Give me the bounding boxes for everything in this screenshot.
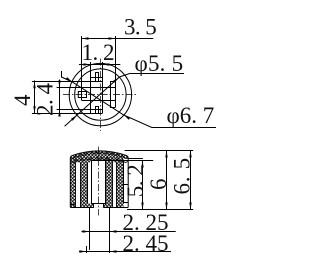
svg-text:4: 4 — [10, 94, 35, 106]
cross top cap right — [98, 72, 100, 81]
leader line phi6.7 diagonal — [62, 71, 217, 128]
dim 2.25 right ext line — [109, 208, 111, 254]
dim 2.25 left ext line — [89, 208, 91, 251]
svg-text:3. 5: 3. 5 — [124, 15, 156, 40]
cross right arm rect — [110, 82, 116, 108]
leader phi5.5 arrows — [71, 77, 119, 121]
front view hole left wall — [91, 161, 93, 204]
front view hole mouth shoulder — [92, 203, 106, 205]
dim 2.4 line — [59, 80, 61, 117]
cross bottom cap top line — [95, 106, 99, 108]
svg-text:6. 5: 6. 5 — [170, 157, 195, 194]
front view clear strip c — [113, 162, 117, 207]
cross slot left rail — [90, 62, 92, 113]
front view right strip clear — [124, 158, 129, 207]
dim 6.5 arrows — [189, 151, 191, 210]
dim 4 line — [34, 80, 36, 113]
front view right wall tick — [124, 185, 129, 203]
leader line phi5.5 diagonal — [65, 74, 184, 127]
cross top arm tip line — [91, 77, 103, 79]
front view centerline — [98, 147, 100, 216]
front view strip c walls — [113, 162, 117, 207]
cross horizontal bar bottom edge — [82, 100, 116, 102]
dim 1.2 arrows — [84, 63, 110, 65]
top view inner circle — [75, 69, 126, 120]
dim 2.25 line — [82, 231, 176, 233]
top view outer circle — [69, 63, 131, 125]
front view mouth clear — [94, 204, 103, 208]
cross left tab rect — [78, 92, 86, 98]
cross bottom cap right — [98, 106, 100, 113]
dim 3.5 left ext line — [81, 36, 83, 101]
dim 6 line — [166, 151, 168, 210]
front view left ledge tick — [70, 204, 75, 206]
front view bottom edge left — [70, 207, 94, 209]
leader phi6.7 arrows — [66, 77, 131, 120]
front view outline — [70, 151, 128, 207]
cross bottom cap left — [95, 106, 97, 113]
svg-text:2. 4: 2. 4 — [33, 83, 58, 117]
front view strip a walls — [76, 162, 81, 207]
shared bottom ext line — [127, 209, 193, 211]
dim 4 arrows — [33, 81, 35, 113]
front view hole channel clear — [92, 161, 106, 204]
svg-text:2. 45: 2. 45 — [123, 231, 169, 256]
dim 4 top ext line — [32, 81, 103, 83]
front view hole top line + 5.2 ext — [92, 160, 154, 162]
front view hole mouth inner verticals — [94, 204, 104, 208]
dim 6.5 line — [190, 151, 192, 210]
dim 2.45 arrows — [80, 250, 117, 252]
cross top cap top line — [95, 72, 99, 74]
front view clear strip b — [88, 162, 92, 203]
dim 2.4 top ext line (merges with bar top) — [57, 87, 116, 89]
vertical centerline of top view — [100, 59, 102, 132]
svg-text:φ5. 5: φ5. 5 — [135, 51, 184, 76]
svg-text:6: 6 — [146, 179, 171, 191]
cross slot right rail — [102, 62, 104, 113]
short ext stub at body corner — [128, 158, 143, 160]
cross top cap left — [95, 72, 97, 81]
front view hole right wall — [105, 161, 107, 204]
front view scallop band — [71, 157, 128, 162]
dim 2.25 arrows — [83, 230, 117, 232]
dim 2.4 arrows — [58, 81, 60, 117]
dim 6 arrows — [165, 151, 167, 210]
top ext line for 6 and 6.5 — [125, 150, 194, 152]
svg-text:φ6. 7: φ6. 7 — [167, 103, 215, 128]
dim 3.5 line — [82, 38, 154, 40]
svg-text:5. 2: 5. 2 — [123, 165, 148, 198]
cross bottom arm tip line — [91, 113, 103, 115]
dim 2.4 bottom ext line — [57, 109, 103, 111]
front view right wall line — [123, 160, 125, 203]
front view upper scallop row — [71, 152, 128, 159]
front view body hatch fill — [70, 151, 128, 207]
horizontal centerline of top view — [63, 94, 138, 96]
dim 4 bottom ext line — [32, 113, 103, 115]
dim 5.2 line — [142, 161, 144, 210]
front view bottom edge right — [103, 207, 128, 209]
dim 5.2 arrows — [141, 161, 143, 210]
dim 2.45 line — [79, 251, 171, 253]
front view clear strip a — [75, 162, 80, 207]
svg-text:1. 2: 1. 2 — [82, 40, 115, 65]
dim 3.5 right ext line — [115, 36, 117, 107]
dim 1.2 line — [79, 64, 120, 66]
dim 3.5 arrows — [82, 37, 116, 39]
dim 2.45 left ext stub — [86, 246, 88, 253]
front view strip b wall — [87, 162, 89, 203]
